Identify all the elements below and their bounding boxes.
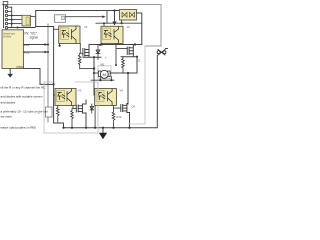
wire left node — [83, 56, 101, 58]
svg-text:till the R or any R channel li: till the R or any R channel line RC — [1, 86, 47, 90]
IC S1 — [22, 15, 31, 26]
svg-text:set each: set each — [1, 115, 13, 119]
label J1 mark — [3, 1, 8, 5]
transistor Q3 — [76, 100, 86, 128]
svg-text:and diodes: and diodes — [1, 101, 16, 105]
converter U5 DC-DC — [120, 10, 137, 21]
wire PD6 arrow — [24, 51, 46, 53]
ground MCU — [9, 69, 11, 74]
wire opto2 out to Q2 gate — [116, 48, 127, 50]
opto U3 — [55, 89, 82, 106]
svg-text:Q4: Q4 — [132, 105, 136, 109]
svg-text:watch optocouples on R00: watch optocouples on R00 — [1, 126, 37, 130]
wire opto2 out down — [115, 44, 117, 66]
connector P2 on gray wire — [46, 107, 53, 117]
wire Q3 source dot — [85, 127, 87, 129]
svg-text:V1: V1 — [84, 25, 88, 29]
wire opto3 out gate — [73, 106, 76, 109]
connector J1 — [4, 5, 8, 29]
svg-text:PWM: PWM — [17, 65, 25, 69]
resistor R1 — [78, 53, 81, 68]
wire motor lower rail — [91, 79, 114, 81]
wire riser mid — [106, 11, 108, 24]
svg-text:and diodes with suitable scree: and diodes with suitable screen — [1, 95, 43, 99]
svg-text:V2: V2 — [127, 25, 131, 29]
opto U4 — [95, 89, 124, 106]
wire X1 output arrow — [66, 16, 103, 18]
enclosure lower-left gray — [44, 82, 98, 133]
svg-text:V3: V3 — [78, 89, 82, 93]
wire signal dark vertical — [36, 27, 64, 128]
motor M1 — [94, 63, 137, 79]
svg-text:R10: R10 — [117, 115, 122, 119]
wire motor to Q4 drain — [127, 73, 129, 104]
enclosure right gray — [129, 46, 145, 124]
svg-text:a preferably 10 - 12 volts on: a preferably 10 - 12 volts on the rail — [1, 110, 48, 114]
junction dot DCDC bottom pin — [121, 22, 123, 24]
wire top supply bus — [2, 5, 161, 47]
ground arrow under DCDC pin — [114, 11, 116, 22]
transistor Q2 — [127, 45, 133, 57]
battery B1 — [157, 49, 167, 56]
svg-text:signal: signal — [30, 36, 39, 40]
wire mid vertical left — [93, 57, 96, 95]
wire S1 riser to DCDC — [36, 11, 120, 27]
svg-text:M1: M1 — [101, 63, 105, 67]
wire right supply rail — [64, 56, 158, 128]
opto U1 — [59, 25, 88, 44]
wire opto2 collector riser — [103, 23, 105, 26]
wire connector rows — [8, 7, 35, 27]
wire opto1 led pin — [54, 28, 59, 30]
oscillator X1 — [55, 15, 66, 22]
resistor R2 — [122, 57, 125, 73]
wire right node — [121, 56, 137, 58]
svg-text:PD5: PD5 — [24, 43, 30, 47]
diode D3 — [90, 104, 94, 113]
wire DCDC right pin down — [137, 13, 142, 45]
wire PD5 arrow — [24, 44, 46, 46]
junction dot pwm join — [53, 83, 55, 85]
svg-text:D2: D2 — [137, 59, 141, 63]
resistor R4 — [112, 109, 115, 128]
wire top drain rail — [89, 45, 142, 48]
diode D1 — [96, 45, 100, 60]
ground main — [102, 128, 104, 133]
wire opto1 out to gate — [80, 44, 83, 54]
svg-text:V4: V4 — [120, 89, 124, 93]
svg-text:M: M — [103, 72, 106, 77]
transistor Q1 — [83, 47, 89, 57]
transistor Q4 — [121, 104, 130, 128]
opto U2 — [101, 25, 130, 44]
wire right node to motor — [136, 57, 138, 73]
wire gate pulldown to mid — [80, 68, 94, 70]
junction dots connector bus — [11, 15, 19, 29]
resistor R5 — [57, 106, 60, 120]
wire signal gray vertical — [47, 24, 49, 122]
wire S1 right pin — [31, 15, 36, 17]
svg-text:+: + — [105, 56, 107, 60]
wire R5 to rail — [57, 119, 59, 123]
svg-text:PD6: PD6 — [24, 51, 30, 55]
junction dot DCDC gnd node — [113, 9, 115, 11]
wire opto4 out gate — [114, 106, 121, 109]
wire opto4 cathode stub — [94, 106, 96, 128]
wire PWM — [24, 69, 54, 85]
wire opto collector rail — [96, 22, 142, 24]
junction dots bottom rail — [62, 127, 130, 129]
MCU U0 — [2, 30, 24, 69]
wire opto3 led pin — [54, 94, 55, 96]
svg-text:8 MHz: 8 MHz — [3, 34, 12, 38]
wire opto2 emitter stub — [101, 44, 103, 45]
wire opto1 emitter stub — [59, 44, 61, 46]
resistor R3 — [71, 111, 74, 128]
